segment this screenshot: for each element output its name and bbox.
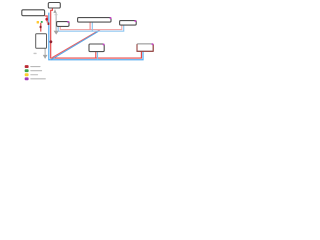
- legend label yellow: [30, 74, 38, 75]
- pin dot purple box B6: [103, 44, 105, 46]
- legend swatch yellow: [25, 73, 29, 76]
- legend label green: [30, 70, 42, 71]
- junction dot dark red on red wire: [50, 40, 53, 43]
- box BT small top: [48, 3, 60, 9]
- pin dot purple box B5: [134, 20, 136, 22]
- box B1 top-left wide: [22, 10, 45, 16]
- wire blue main: vertical at x48.8 then long run right to box B7: [49, 13, 143, 60]
- box B7 red highlight edges: [137, 44, 153, 51]
- wire blue pin under box B4: [91, 22, 93, 31]
- wire red cluster jog: [40, 23, 42, 32]
- legend swatch red: [25, 65, 29, 68]
- legend label purple: [30, 78, 46, 79]
- label tiny near box B2: [34, 53, 37, 54]
- wire blue pin under box B6: [97, 52, 99, 60]
- legend swatch purple: [25, 77, 29, 80]
- node dark red connector on blue wire: [48, 22, 50, 25]
- box B7 selected dark red: [137, 44, 153, 51]
- wire red pin under box B6: [95, 52, 97, 59]
- pin dot purple box B7: [152, 43, 154, 45]
- wire light blue upper horizontal: box B3 to box B5: [58, 25, 124, 31]
- box B4 long: [78, 18, 111, 23]
- box B2 square left: [36, 34, 47, 49]
- arrow A1 double vertical: [53, 9, 58, 34]
- wire red main: from top small box down-left then long run right to box B7: [51, 8, 142, 58]
- wire blue diagonal: [51, 31, 99, 60]
- label tiny near arrow A1: [55, 14, 58, 15]
- wire red pin under box B4: [89, 22, 91, 29]
- LED yellow pad: [37, 21, 39, 24]
- arrow A2 downward through box B2: [43, 35, 48, 59]
- node red blob left of cluster: [45, 18, 48, 21]
- LED green pad: [41, 21, 43, 23]
- pin dot purple box B4: [110, 17, 112, 19]
- node dark red connector below cluster: [40, 26, 42, 28]
- legend label red: [30, 66, 40, 67]
- box B5: [120, 21, 137, 26]
- wire red stub from box B1: [45, 16, 48, 23]
- box B3: [57, 22, 69, 27]
- wire red diagonal: [52, 30, 100, 58]
- pin dot purple box B3: [67, 21, 69, 23]
- legend swatch green: [25, 69, 29, 72]
- box B6: [89, 44, 104, 52]
- wire pink upper horizontal: box B3 to box B5: [60, 25, 122, 29]
